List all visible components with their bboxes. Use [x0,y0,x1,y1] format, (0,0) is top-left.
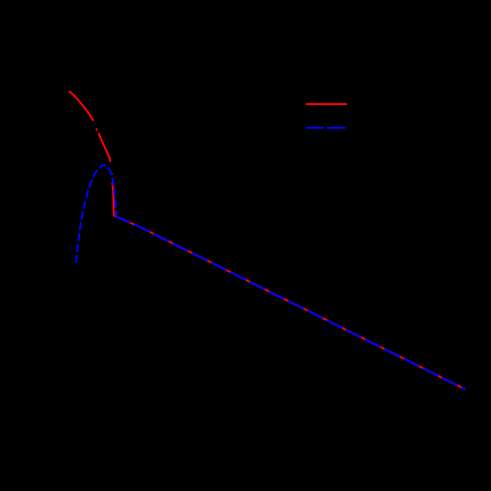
red solid curve: descending arc, segment A [69,91,94,121]
red curve segment C: vertical drop to kink [112,182,113,216]
red solid line segment after kink (under blue dashes) [114,216,465,390]
blue dashed line after kink (over red) [116,217,465,390]
legend red solid sample [306,103,347,105]
red curve segment B [99,133,111,162]
red curve dot 1 [95,129,98,131]
red curve dot 2 [111,173,113,175]
blue dashed parabola branch [76,165,116,263]
legend blue dashed sample [306,127,346,129]
